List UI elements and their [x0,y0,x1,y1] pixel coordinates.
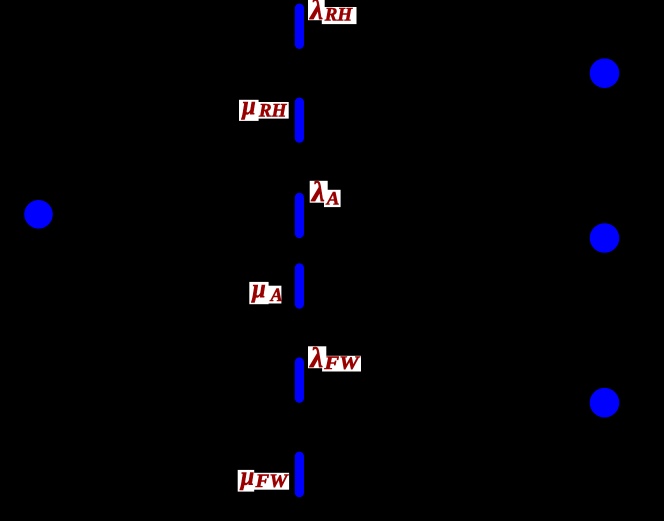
label lambda_A [310,176,341,209]
transition T3 [295,193,304,238]
label mu_A [249,274,282,306]
transition T6 [295,452,304,498]
svg-text:λ: λ [309,0,323,26]
svg-text:A: A [270,285,283,306]
svg-text:RH: RH [324,5,354,26]
svg-text:FW: FW [323,353,360,374]
label lambda_FW [308,342,361,374]
token left place [24,200,53,229]
svg-text:μ: μ [239,462,254,491]
token right place 2 [590,223,620,253]
token right place 3 [590,388,620,418]
token right place 1 [590,58,620,88]
transition T1 [295,4,304,50]
svg-text:μ: μ [250,274,265,303]
svg-text:RH: RH [258,100,288,121]
svg-text:λ: λ [311,176,325,208]
transition T2 [295,98,304,143]
svg-text:FW: FW [254,471,288,492]
label mu_RH [239,91,289,122]
label lambda_RH [308,0,357,26]
label mu_FW [238,462,289,493]
svg-text:λ: λ [309,342,323,374]
transition T5 [295,357,304,403]
svg-text:A: A [326,189,340,210]
svg-text:μ: μ [240,91,255,120]
transition T4 [295,263,304,308]
